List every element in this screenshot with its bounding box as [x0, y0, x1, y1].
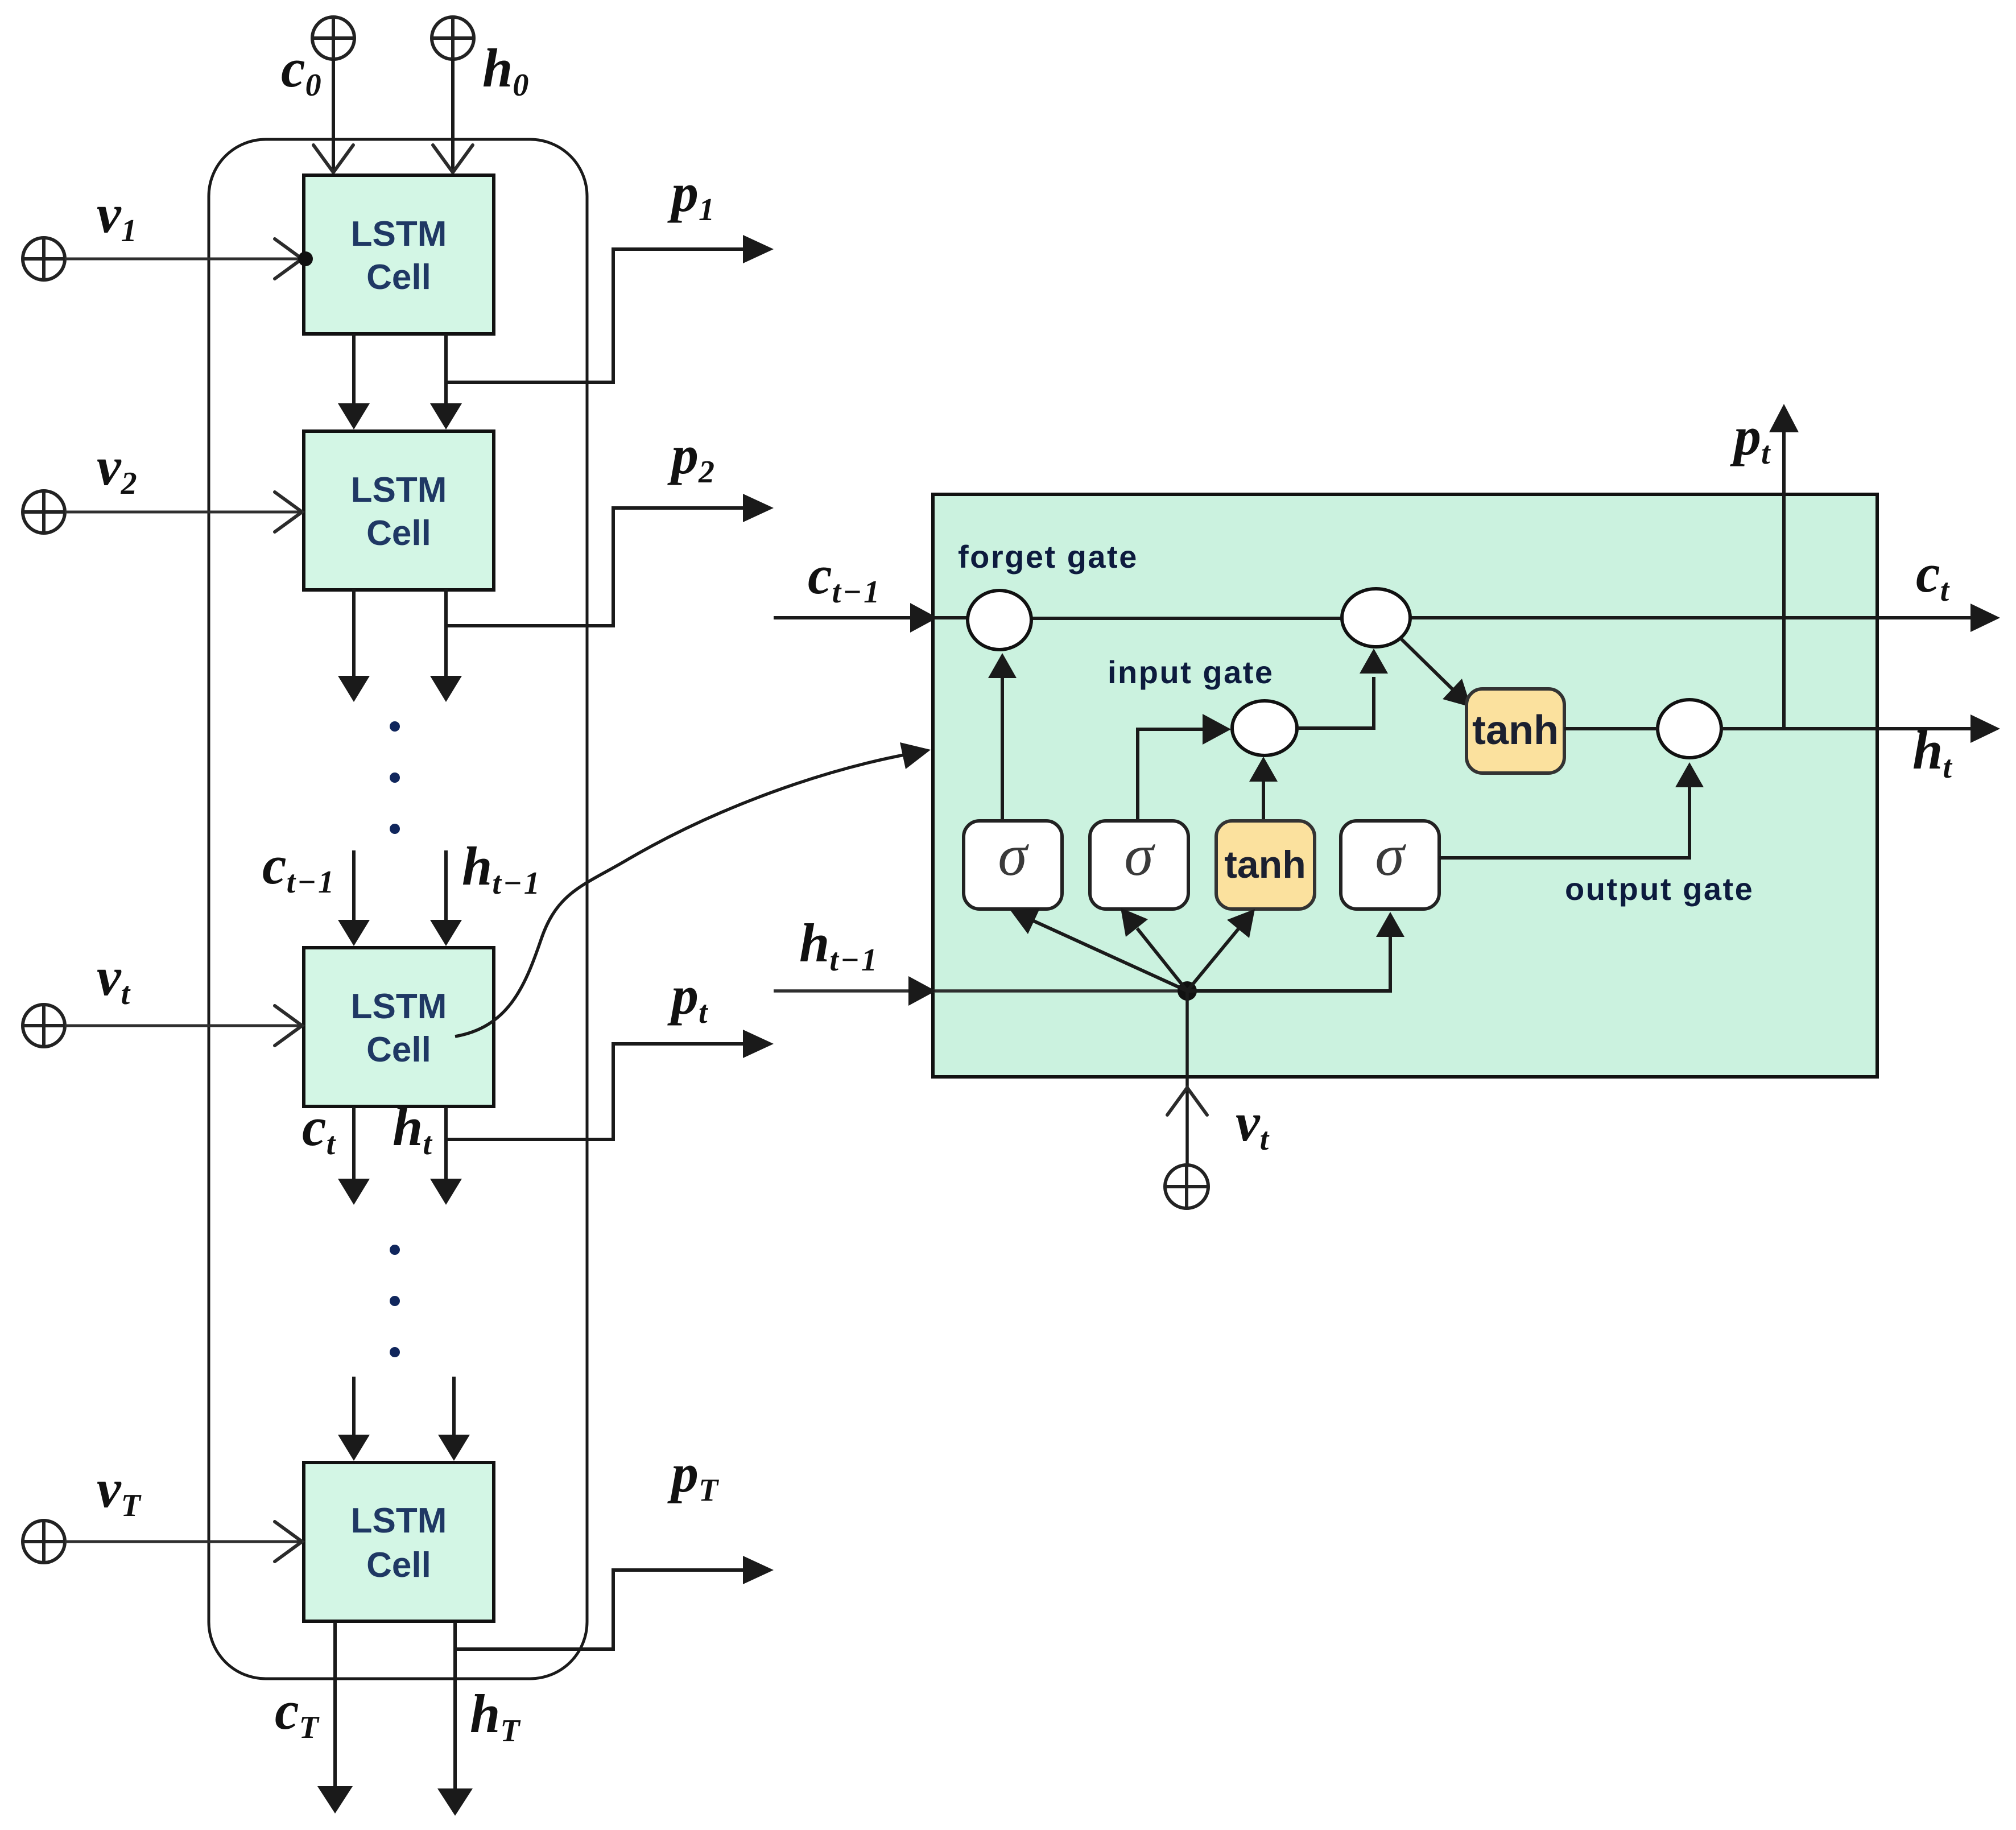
hidden state output line	[1721, 714, 2000, 743]
wire v2 to cell	[65, 492, 302, 532]
svg-text:input gate: input gate	[1108, 654, 1274, 690]
svg-text:v2: v2	[97, 436, 139, 501]
wire big tanh to output circle	[1564, 727, 1658, 730]
wire p2	[446, 494, 774, 626]
input node v_t (circled plus)	[1165, 1165, 1208, 1208]
wire c_T out of cell T	[317, 1622, 353, 1814]
svg-text:vt: vt	[1236, 1092, 1270, 1157]
wire c into cell t	[338, 850, 370, 946]
wire c from cell t down	[338, 1107, 370, 1205]
svg-text:vt: vt	[97, 946, 131, 1011]
wire c_t-1 into forget gate	[774, 603, 968, 633]
wire h from cell 1 to cell 2	[430, 334, 462, 429]
LSTM cell t	[304, 948, 494, 1106]
fan wire to sigma1	[1010, 908, 1187, 991]
ellipsis dots upper	[390, 721, 400, 834]
wire h_T out of cell T	[437, 1622, 473, 1816]
svg-text:p1: p1	[667, 162, 716, 228]
svg-text:LSTM: LSTM	[351, 1501, 447, 1540]
svg-text:v1: v1	[97, 183, 139, 249]
svg-text:LSTM: LSTM	[351, 214, 447, 254]
sigma box 1	[964, 821, 1062, 909]
svg-text:ct−1: ct−1	[808, 544, 881, 610]
wire pt	[446, 1030, 774, 1139]
input node v2 (circled plus)	[23, 491, 65, 533]
svg-text:pt: pt	[1730, 406, 1772, 471]
svg-text:ct: ct	[1916, 543, 1951, 608]
wire c into cell T	[338, 1377, 370, 1461]
svg-text:p2: p2	[667, 424, 716, 490]
input gate multiply circle	[1232, 701, 1297, 755]
wire p1	[446, 235, 774, 382]
LSTM cell 1	[304, 175, 494, 334]
forget gate multiply circle	[968, 590, 1031, 650]
junction dot at cell 1 input	[298, 251, 313, 266]
svg-text:cT: cT	[275, 1680, 320, 1745]
wire small tanh to input gate circle	[1249, 757, 1278, 822]
input node c0 (circled plus)	[312, 17, 354, 59]
svg-text:vT: vT	[97, 1458, 142, 1523]
svg-text:hT: hT	[470, 1683, 522, 1749]
sigma box 2	[1090, 821, 1188, 909]
wire h0 into cell 1	[433, 59, 473, 172]
small tanh box	[1216, 821, 1315, 909]
wire v1 to cell	[65, 239, 302, 279]
svg-text:σ: σ	[998, 823, 1029, 888]
LSTM cell T	[304, 1463, 494, 1621]
sigma box 3	[1341, 821, 1439, 909]
wire h_t-1 into box	[774, 976, 1187, 1006]
svg-text:Cell: Cell	[366, 258, 431, 297]
fan wire to sigma3	[1187, 912, 1404, 991]
svg-text:ht−1: ht−1	[462, 836, 542, 901]
svg-text:Cell: Cell	[366, 514, 431, 553]
svg-text:Cell: Cell	[366, 1546, 431, 1585]
wire sigma3 to output circle	[1439, 762, 1704, 858]
input node vT (circled plus)	[23, 1521, 65, 1563]
junction dot h_t-1	[1178, 981, 1197, 1001]
svg-text:Cell: Cell	[366, 1030, 431, 1069]
big tanh box	[1466, 689, 1564, 773]
svg-text:LSTM: LSTM	[351, 987, 447, 1026]
connector from cell t to detail box	[455, 742, 931, 1036]
wire h into cell T	[438, 1377, 470, 1461]
svg-text:σ: σ	[1124, 823, 1155, 888]
svg-text:ct−1: ct−1	[262, 835, 336, 900]
input node vt (circled plus)	[23, 1005, 65, 1047]
svg-text:pt: pt	[667, 965, 709, 1030]
ellipsis dots lower	[390, 1245, 400, 1357]
svg-text:output gate: output gate	[1565, 871, 1754, 907]
svg-text:forget gate: forget gate	[958, 539, 1138, 575]
wire p_t up	[1769, 404, 1799, 729]
LSTM cell 2	[304, 431, 494, 590]
output multiply circle	[1658, 700, 1721, 758]
wire sigma2 to input gate circle	[1138, 714, 1231, 822]
svg-text:tanh: tanh	[1224, 843, 1306, 886]
wire vT to cell	[65, 1522, 302, 1562]
input node h0 (circled plus)	[432, 17, 474, 59]
LSTM cell detail box	[933, 494, 1877, 1077]
wire h from cell 2 down	[430, 589, 462, 702]
cell state line	[1031, 604, 2000, 632]
fan wire to small tanh	[1187, 909, 1255, 991]
svg-text:σ: σ	[1375, 823, 1406, 888]
encoder column rounded container	[209, 139, 587, 1679]
svg-text:h0: h0	[482, 38, 530, 103]
wire pT	[455, 1556, 774, 1649]
wire input gate circle to add circle	[1298, 648, 1388, 728]
input node v1 (circled plus)	[23, 238, 65, 280]
wire h from cell t down	[430, 1107, 462, 1205]
wire h into cell t	[430, 850, 462, 946]
svg-text:LSTM: LSTM	[351, 470, 447, 510]
wire c from cell 2 down	[338, 589, 370, 702]
wire v_t up into box	[1167, 991, 1207, 1165]
wire c from cell 1 to cell 2	[338, 334, 370, 429]
svg-text:tanh: tanh	[1472, 708, 1559, 753]
wire add circle to big tanh	[1401, 638, 1471, 707]
add circle	[1342, 589, 1410, 647]
svg-text:ht−1: ht−1	[799, 912, 879, 978]
wire vt to cell	[65, 1006, 302, 1046]
fan wire to sigma2	[1121, 908, 1187, 991]
wire c0 into cell 1	[313, 59, 353, 172]
wire sigma1 to forget circle	[988, 653, 1017, 822]
svg-text:pT: pT	[667, 1443, 720, 1508]
